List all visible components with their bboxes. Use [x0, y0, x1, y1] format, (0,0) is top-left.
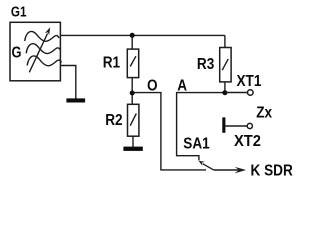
wire G1 lower output to ground: [60, 66, 75, 99]
resistor R2: [128, 104, 139, 136]
resistor R3 slash: [222, 59, 228, 70]
sine wave 1: [25, 31, 59, 41]
svg-text:SA1: SA1: [183, 136, 209, 153]
resistor R1: [127, 49, 138, 78]
svg-text:R3: R3: [197, 56, 214, 73]
output arrow head K SDR: [235, 167, 247, 174]
svg-text:A: A: [177, 78, 187, 95]
svg-text:XT1: XT1: [237, 73, 262, 90]
wire node O branch to switch: [132, 93, 206, 170]
terminal XT1 circle: [248, 90, 254, 96]
svg-text:XT2: XT2: [234, 132, 261, 150]
svg-text:Zx: Zx: [256, 105, 273, 122]
svg-text:R2: R2: [105, 112, 122, 129]
impedance Zx bar: [222, 117, 225, 132]
ground bar under G1: [66, 98, 85, 102]
tuning arrow shaft: [29, 34, 47, 73]
wire to terminal XT1: [225, 92, 248, 94]
switch SA1 lever shaft: [203, 164, 214, 170]
svg-text:R1: R1: [103, 55, 120, 72]
node junction dot O: [130, 91, 135, 96]
resistor R1 slash: [130, 56, 136, 66]
svg-text:G1: G1: [11, 3, 27, 20]
sine wave 3: [27, 56, 61, 66]
resistor R2 slash: [130, 114, 136, 126]
wire to terminal XT2: [225, 125, 247, 127]
wire R1 bottom to R2 top: [131, 78, 133, 105]
wire node A branch to switch contact: [177, 93, 225, 161]
ground bar under R2: [123, 147, 142, 151]
node junction dot at R1 top: [130, 33, 135, 38]
tuning arrow head: [45, 27, 50, 35]
wire R2 bottom lead: [132, 136, 134, 147]
wire R3 bottom to node A junction: [224, 82, 226, 93]
sine wave 2: [26, 44, 60, 54]
svg-text:K SDR: K SDR: [251, 163, 294, 180]
wire R3 vertical drop: [224, 35, 226, 47]
node junction dot A: [222, 90, 227, 95]
resistor R3: [220, 48, 231, 82]
terminal XT2 circle: [247, 123, 252, 128]
wire R1 top lead: [131, 35, 133, 49]
switch SA1 lever arrow head: [198, 161, 204, 166]
svg-text:G: G: [12, 44, 22, 62]
wire top horizontal from G1 to R3 drop: [60, 34, 225, 36]
generator G1 box: [10, 22, 60, 81]
wire to SDR output: [214, 169, 240, 171]
